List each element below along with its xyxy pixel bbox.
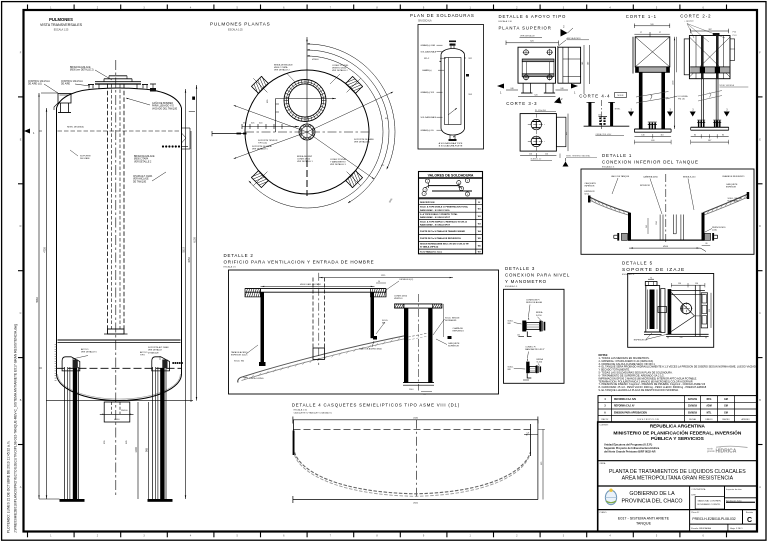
svg-text:DE IZAJE: DE IZAJE xyxy=(80,157,90,160)
svg-text:RADIOGRAF. - S/ UW-52 SPOT: RADIOGRAF. - S/ UW-52 SPOT xyxy=(420,216,451,219)
svg-text:ESPESOR 12: ESPESOR 12 xyxy=(634,340,648,342)
svg-text:DIBUJO: DIBUJO xyxy=(706,419,713,421)
svg-text:1: 1 xyxy=(427,181,428,183)
svg-text:VER DETALLE 6: VER DETALLE 6 xyxy=(81,351,98,354)
svg-text:Ø600 C/ TAPA: Ø600 C/ TAPA xyxy=(274,66,288,69)
svg-text:45°: 45° xyxy=(385,118,388,120)
svg-text:REVISO: REVISO xyxy=(722,419,730,421)
svg-text:APOYO: APOYO xyxy=(81,348,89,351)
svg-text:DN500: DN500 xyxy=(121,410,128,412)
svg-text:150: 150 xyxy=(598,115,601,117)
svg-text:Ø500: Ø500 xyxy=(663,246,669,248)
svg-text:C: C xyxy=(747,517,752,524)
svg-text:VENTEO: VENTEO xyxy=(394,298,403,300)
svg-text:SOPORTE DE BASE: SOPORTE DE BASE xyxy=(354,138,374,141)
svg-text:VER DETALLE 1: VER DETALLE 1 xyxy=(297,160,314,163)
svg-text:2: 2 xyxy=(458,183,459,185)
svg-text:D E S C R I P C I O N: D E S C R I P C I O N xyxy=(637,419,659,421)
svg-text:(x16): (x16) xyxy=(712,230,717,232)
svg-text:LADO DE TANQUE: LADO DE TANQUE xyxy=(611,175,630,178)
svg-text:NIVEL DE AGUA: NIVEL DE AGUA xyxy=(67,126,84,129)
svg-text:CONEXION PARA NIVEL: CONEXION PARA NIVEL xyxy=(505,273,570,278)
svg-text:Segundo Proyecto de Infraestru: Segundo Proyecto de Infraestructura Hídr… xyxy=(604,446,660,450)
svg-text:150: 150 xyxy=(695,283,698,285)
svg-text:UTE: UTE xyxy=(691,494,696,496)
svg-text:Escala: INDICADAS: Escala: INDICADAS xyxy=(691,527,711,530)
svg-text:Inspector de obra: Inspector de obra xyxy=(726,488,742,491)
svg-text:OBRA :: OBRA : xyxy=(600,462,607,465)
svg-text:CONTRATISTA:: CONTRATISTA: xyxy=(691,488,706,491)
svg-text:VER DETALLE 3: VER DETALLE 3 xyxy=(330,163,347,166)
svg-text:PLOTEADO: LUNES 21 DE OCTUBRE: PLOTEADO: LUNES 21 DE OCTUBRE DE 2019 11… xyxy=(7,440,11,533)
svg-text:80: 80 xyxy=(706,243,708,245)
svg-text:VACIADO DEL TANQUE: VACIADO DEL TANQUE xyxy=(152,107,178,110)
svg-text:A SOLDADURA A TOPE: A SOLDADURA A TOPE xyxy=(439,142,463,145)
svg-text:RADIOGRAF. - S/ UW-51 100%: RADIOGRAF. - S/ UW-51 100% xyxy=(420,209,450,212)
svg-text:965: 965 xyxy=(146,447,149,452)
svg-text:FILETE DE Tw S/ TABLA DE TAMAÑ: FILETE DE Tw S/ TABLA DE TAMAÑO MINIMO xyxy=(420,230,466,233)
svg-text:ORIFICIO PARA VENTILACION Y EN: ORIFICIO PARA VENTILACION Y ENTRADA DE H… xyxy=(224,260,375,265)
svg-text:100: 100 xyxy=(517,335,520,337)
svg-text:7.5: 7.5 xyxy=(423,394,426,396)
svg-text:DESCRIPCION: DESCRIPCION xyxy=(420,202,435,204)
svg-text:del Norte Grande Préstamo BIRF: del Norte Grande Préstamo BIRF 8032-AR xyxy=(604,450,656,454)
svg-text:GM: GM xyxy=(724,406,728,408)
svg-text:FILETE DE Tw S/ TABLA DE REFUE: FILETE DE Tw S/ TABLA DE REFUERZOS xyxy=(420,237,461,240)
svg-text:17: 17 xyxy=(659,32,661,34)
svg-text:S. A TOPE DOBLE C/ PENETR. TOT: S. A TOPE DOBLE C/ PENETR. TOTAL xyxy=(420,213,458,216)
svg-text:ANCLAJE M20: ANCLAJE M20 xyxy=(567,37,582,40)
svg-text:150: 150 xyxy=(680,337,683,339)
svg-text:1245: 1245 xyxy=(656,221,658,225)
svg-text:S-150: S-150 xyxy=(537,361,543,363)
svg-text:140: 140 xyxy=(641,134,644,136)
svg-text:7: 7 xyxy=(424,194,425,196)
svg-text:APOYO: APOYO xyxy=(140,351,148,354)
svg-text:VER DETALLE 2: VER DETALLE 2 xyxy=(332,69,349,72)
svg-text:1200: 1200 xyxy=(135,447,138,453)
svg-text:400: 400 xyxy=(651,140,654,142)
svg-text:450: 450 xyxy=(566,132,568,135)
svg-text:PLANTA DE TRATAMIENTOS DE LIQU: PLANTA DE TRATAMIENTOS DE LIQUIDOS CLOAC… xyxy=(609,469,746,475)
svg-text:GM: GM xyxy=(724,412,728,414)
svg-text:NORMA W6: NORMA W6 xyxy=(445,319,457,322)
svg-text:VER DETALLE 2: VER DETALLE 2 xyxy=(134,160,152,163)
svg-text:ESCALA 1:10: ESCALA 1:10 xyxy=(294,409,308,412)
svg-text:TIPO: TIPO xyxy=(140,355,145,357)
svg-text:REV. N°: REV. N° xyxy=(602,419,609,421)
svg-text:TANQUE: TANQUE xyxy=(636,521,652,525)
svg-text:ESCALA 1:5: ESCALA 1:5 xyxy=(505,285,518,288)
svg-text:NIVEL: NIVEL xyxy=(615,109,620,111)
svg-text:TIPO (x4): TIPO (x4) xyxy=(258,143,267,145)
svg-text:6100: 6100 xyxy=(194,237,197,243)
svg-text:INFERIOR: INFERIOR xyxy=(585,186,595,188)
svg-text:SOLDADURA A: SOLDADURA A xyxy=(421,51,437,54)
svg-text:MODIF: MODIF xyxy=(618,95,625,97)
svg-text:VER DETALLE 5: VER DETALLE 5 xyxy=(252,148,269,151)
svg-text:SOLD. A TOPE SIMPLE C/ RESPALD: SOLD. A TOPE SIMPLE C/ RESPALDO S/ UW-12 xyxy=(420,220,468,223)
svg-text:RADIOGRAF. - S/ UW-52 SPOT: RADIOGRAF. - S/ UW-52 SPOT xyxy=(420,224,451,227)
svg-text:4700: 4700 xyxy=(44,247,47,253)
svg-text:PLANTA SUPERIOR: PLANTA SUPERIOR xyxy=(499,26,552,31)
svg-text:SOLD. W6: SOLD. W6 xyxy=(234,361,245,363)
svg-text:RFG: RFG xyxy=(707,399,712,401)
svg-text:TUBO DE ACERO Ø600: TUBO DE ACERO Ø600 xyxy=(359,348,383,351)
svg-text:140: 140 xyxy=(582,62,584,65)
svg-text:DE AIRE: DE AIRE xyxy=(61,83,71,86)
svg-text:45°: 45° xyxy=(381,165,384,167)
svg-text:110: 110 xyxy=(660,134,663,136)
svg-text:S/ TABLA (TIPICO): S/ TABLA (TIPICO) xyxy=(420,246,439,249)
svg-text:VISTA TRANSVERSALES: VISTA TRANSVERSALES xyxy=(40,23,83,27)
svg-text:SOLDADURA B: SOLDADURA B xyxy=(421,116,437,119)
svg-text:ESCALA 1:25: ESCALA 1:25 xyxy=(54,29,69,32)
svg-text:80: 80 xyxy=(722,134,724,136)
svg-text:MTL: MTL xyxy=(707,412,712,414)
svg-text:CHAPA ALT. DIAM.: CHAPA ALT. DIAM. xyxy=(133,175,153,178)
svg-text:PULMONES: PULMONES xyxy=(49,17,73,22)
svg-text:240: 240 xyxy=(560,88,563,90)
svg-text:C: C xyxy=(20,312,22,315)
svg-text:VER DETALLE 2: VER DETALLE 2 xyxy=(274,69,291,72)
svg-text:ESCALA 1:5: ESCALA 1:5 xyxy=(602,165,615,168)
svg-text:Ø600 DIAM. DE PASO: Ø600 DIAM. DE PASO xyxy=(300,283,321,286)
svg-text:NIVEL TERRENO NATURAL: NIVEL TERRENO NATURAL xyxy=(566,155,590,158)
svg-text:BRIDA S-150: BRIDA S-150 xyxy=(683,176,696,179)
svg-text:SOPORTE: SOPORTE xyxy=(80,156,91,158)
svg-text:5960: 5960 xyxy=(36,297,39,303)
svg-text:254.6: 254.6 xyxy=(409,389,414,391)
svg-text:PLAN DE SOLDADURAS: PLAN DE SOLDADURAS xyxy=(410,13,475,18)
svg-text:B SOLDADURA FILETE: B SOLDADURA FILETE xyxy=(439,145,463,148)
svg-text:VALORES DE SOLDADURA: VALORES DE SOLDADURA xyxy=(428,173,474,177)
svg-text:J:\PRE03\H\E2B018\PLANOS\PROYE: J:\PRE03\H\E2B018\PLANOS\PROYECTO EJECUT… xyxy=(14,324,18,533)
svg-text:Ø TANQUE: Ø TANQUE xyxy=(148,351,159,354)
svg-text:DETALLE 4(C): DETALLE 4(C) xyxy=(400,278,414,281)
svg-text:APROBO: APROBO xyxy=(741,418,750,421)
svg-text:5: 5 xyxy=(461,189,462,191)
svg-text:DETALLE 2: DETALLE 2 xyxy=(224,253,254,258)
svg-text:DETALLE 4 CASQUETES SEMIELIPT: DETALLE 4 CASQUETES SEMIELIPTICOS TIPO A… xyxy=(292,403,460,408)
svg-text:350: 350 xyxy=(709,309,711,312)
svg-text:JUNTA O-RING: JUNTA O-RING xyxy=(249,377,264,380)
svg-text:520: 520 xyxy=(534,95,537,97)
svg-text:DE TANQUE: DE TANQUE xyxy=(133,180,147,183)
svg-text:ADM: ADM xyxy=(706,405,711,408)
svg-text:CAÑERIA Ø250: CAÑERIA Ø250 xyxy=(643,176,659,179)
svg-text:VER ANCLAJE: VER ANCLAJE xyxy=(133,178,149,181)
svg-text:PÚBLICA Y SERVICIOS: PÚBLICA Y SERVICIOS xyxy=(651,435,705,442)
svg-text:05/08/19: 05/08/19 xyxy=(688,412,698,414)
svg-text:GOBIERNO DE LA: GOBIERNO DE LA xyxy=(629,491,675,497)
svg-text:VER DETALLE: VER DETALLE xyxy=(520,35,535,38)
svg-text:70: 70 xyxy=(650,277,652,279)
svg-text:DETALLE 5: DETALLE 5 xyxy=(622,261,653,266)
svg-text:BRIDA DE ENLACE: BRIDA DE ENLACE xyxy=(134,155,155,158)
svg-text:GMAW(s): GMAW(s) xyxy=(422,69,432,72)
svg-text:PRE03-H-E2B018-PL08-032: PRE03-H-E2B018-PL08-032 xyxy=(692,517,735,521)
svg-text:NORMA W6: NORMA W6 xyxy=(728,200,740,203)
svg-text:240: 240 xyxy=(510,88,513,90)
svg-text:GMAW(s) 6GR: GMAW(s) 6GR xyxy=(421,44,436,47)
svg-text:PARA LLENADO Y/O: PARA LLENADO Y/O xyxy=(152,105,174,108)
svg-text:BRIDA: BRIDA xyxy=(537,358,544,361)
svg-text:BRIDA DE ENLACE: BRIDA DE ENLACE xyxy=(70,66,91,69)
svg-text:110: 110 xyxy=(545,154,548,156)
svg-text:Ø500: Ø500 xyxy=(114,419,120,421)
svg-text:OBRA CIVIL H°A°: OBRA CIVIL H°A° xyxy=(595,133,611,136)
svg-text:VER DETALLE: VER DETALLE xyxy=(148,349,163,352)
svg-text:PROVINCIA DEL CHACO: PROVINCIA DEL CHACO xyxy=(621,499,682,505)
svg-text:CLIENTE:: CLIENTE: xyxy=(600,424,609,426)
svg-text:Unidad Ejecutora del Programa: Unidad Ejecutora del Programa (U.E.P.) xyxy=(604,442,652,446)
svg-text:150: 150 xyxy=(678,283,681,285)
svg-text:SOLD. A TOPE DOBLE C/ PENETRAC: SOLD. A TOPE DOBLE C/ PENETRACION TOTAL xyxy=(420,206,469,209)
svg-text:GM: GM xyxy=(724,399,728,401)
svg-text:SEGUN NORMA ASME SECC VIII DIV: SEGUN NORMA ASME SECC VIII DIV.1 UW-16 T… xyxy=(420,243,469,246)
svg-text:Hoja: 1 DE 1: Hoja: 1 DE 1 xyxy=(730,528,743,530)
svg-text:Ø600 C/TAPA: Ø600 C/TAPA xyxy=(134,158,149,161)
svg-text:Y MANOMETRO: Y MANOMETRO xyxy=(505,279,547,284)
svg-text:CORTE 2-2: CORTE 2-2 xyxy=(680,14,711,19)
svg-text:50: 50 xyxy=(378,281,380,283)
svg-text:CORTE 4-4: CORTE 4-4 xyxy=(579,94,610,99)
svg-text:DETALLE 1: DETALLE 1 xyxy=(602,153,632,158)
svg-text:CONTROL VALVULA: CONTROL VALVULA xyxy=(28,80,50,83)
svg-text:+ agua/aire: + agua/aire xyxy=(684,20,694,23)
svg-text:6mm: 6mm xyxy=(585,194,590,196)
svg-text:D: D xyxy=(20,225,22,228)
svg-text:SOPORTE DE IZAJE: SOPORTE DE IZAJE xyxy=(622,267,685,273)
svg-text:DETALLE 3: DETALLE 3 xyxy=(505,266,535,271)
svg-text:INTERIOR: INTERIOR xyxy=(640,185,650,187)
svg-text:9- EL TANQUE LLEVARA LA PLACA: 9- EL TANQUE LLEVARA LA PLACA DE IDENTIF… xyxy=(599,388,680,392)
svg-text:2440: 2440 xyxy=(413,418,419,420)
svg-text:ESPESOR: ESPESOR xyxy=(726,187,737,189)
svg-text:240: 240 xyxy=(588,62,590,65)
svg-text:P10: P10 xyxy=(733,32,736,34)
svg-text:SANDOVAL CONTRER.: SANDOVAL CONTRER. xyxy=(698,500,722,503)
svg-text:25/09/19: 25/09/19 xyxy=(688,406,698,408)
svg-text:BRIDA: BRIDA xyxy=(536,311,543,314)
svg-text:3250: 3250 xyxy=(188,257,191,263)
svg-text:Ø600 (ver DETALLE 2): Ø600 (ver DETALLE 2) xyxy=(70,69,94,72)
svg-text:SOPORTE DE IZAJE: SOPORTE DE IZAJE xyxy=(252,145,272,148)
svg-text:BRIDA DE INSP: BRIDA DE INSP xyxy=(297,155,313,158)
svg-text:FECHA: FECHA xyxy=(689,418,696,421)
svg-text:PULMONES PLANTAS: PULMONES PLANTAS xyxy=(210,22,270,27)
svg-text:PLANO:: PLANO: xyxy=(600,511,608,514)
svg-text:02/10/19: 02/10/19 xyxy=(688,399,698,401)
svg-text:Ø AGUJ. 22: Ø AGUJ. 22 xyxy=(531,158,543,161)
svg-text:DE AIRE (x2): DE AIRE (x2) xyxy=(28,83,42,86)
svg-text:D: D xyxy=(759,225,761,228)
svg-text:80: 80 xyxy=(694,134,696,136)
svg-text:HÍDRICA: HÍDRICA xyxy=(716,446,737,454)
svg-text:REFORMA CAJ. N°: REFORMA CAJ. N° xyxy=(614,405,635,408)
svg-text:110: 110 xyxy=(529,154,532,156)
svg-text:CONEXION INFERIOR DEL TANQUE: CONEXION INFERIOR DEL TANQUE xyxy=(602,159,699,164)
svg-text:245: 245 xyxy=(646,225,648,228)
svg-text:PNI 140: PNI 140 xyxy=(678,98,685,100)
svg-text:17: 17 xyxy=(640,32,642,34)
svg-text:REFORMA CAJ. S/N: REFORMA CAJ. S/N xyxy=(614,398,636,401)
svg-text:NIVEL VEREDA: NIVEL VEREDA xyxy=(720,84,735,87)
svg-text:CONTROL VALVULA: CONTROL VALVULA xyxy=(61,80,83,83)
svg-text:Tw S/ TABLA Tw: 6mm: Tw S/ TABLA Tw: 6mm xyxy=(420,250,442,253)
svg-text:N°: N° xyxy=(478,202,480,204)
svg-text:3: 3 xyxy=(467,181,468,183)
svg-text:PL 8: PL 8 xyxy=(733,35,737,37)
svg-text:387: 387 xyxy=(708,140,711,142)
svg-text:CORTE 1-1: CORTE 1-1 xyxy=(626,14,657,19)
svg-text:6: 6 xyxy=(467,194,468,196)
svg-text:ESPESOR 10mm: ESPESOR 10mm xyxy=(231,355,248,357)
svg-text:ESCALA 1:25: ESCALA 1:25 xyxy=(228,29,243,32)
svg-text:DETALLE 6 APOYO TIPO: DETALLE 6 APOYO TIPO xyxy=(499,14,567,19)
svg-text:CORTE 3-3: CORTE 3-3 xyxy=(506,101,537,106)
svg-text:AREA METROPOLITANA GRAN RESIST: AREA METROPOLITANA GRAN RESISTENCIA xyxy=(622,476,734,482)
svg-text:NIVEL DE AGUA: NIVEL DE AGUA xyxy=(526,301,542,304)
svg-text:t=8: t=8 xyxy=(527,432,530,435)
svg-text:grande: grande xyxy=(707,451,715,453)
svg-text:VER DETALLE 6: VER DETALLE 6 xyxy=(354,141,371,144)
svg-text:REPUBLICA ARGENTINA: REPUBLICA ARGENTINA xyxy=(650,423,706,428)
svg-text:Revisión: Revisión xyxy=(746,512,753,514)
svg-text:Plano N°: Plano N° xyxy=(691,512,699,514)
svg-text:CASQUETE S/ TANQUE V (VACIADO): CASQUETE S/ TANQUE V (VACIADO) xyxy=(294,412,332,415)
svg-text:SUPERIOR: SUPERIOR xyxy=(448,346,459,348)
svg-text:BRIDA DE ENLACE: BRIDA DE ENLACE xyxy=(274,64,293,67)
svg-text:W1-2: W1-2 xyxy=(424,58,430,60)
svg-text:C: C xyxy=(759,312,761,315)
svg-text:SIN ESCALA: SIN ESCALA xyxy=(418,20,432,23)
svg-text:EMISION PARA APROBACION: EMISION PARA APROBACION xyxy=(614,411,647,414)
svg-text:SOPORTE ALT. DIAM: SOPORTE ALT. DIAM xyxy=(148,346,169,349)
svg-text:ESCALA 1:5: ESCALA 1:5 xyxy=(224,266,237,269)
svg-text:MANOMETRO Ø1/2": MANOMETRO Ø1/2" xyxy=(525,348,545,351)
svg-text:S-150: S-150 xyxy=(536,315,542,317)
svg-text:GMAW(s) W3: GMAW(s) W3 xyxy=(421,91,435,94)
svg-text:E017 - SISTEMA ANTI ARIETE: E017 - SISTEMA ANTI ARIETE xyxy=(618,517,670,521)
svg-text:Y MANOMETRO: Y MANOMETRO xyxy=(330,161,346,164)
svg-text:CAÑO DE BOMBEO: CAÑO DE BOMBEO xyxy=(152,102,173,105)
svg-text:Ø2440: Ø2440 xyxy=(312,59,319,61)
svg-text:2500: 2500 xyxy=(413,503,419,505)
svg-text:ESCALA 1:10: ESCALA 1:10 xyxy=(499,20,513,23)
svg-text:REFUERZO: REFUERZO xyxy=(453,331,465,333)
svg-text:5310: 5310 xyxy=(183,247,186,253)
svg-text:CHAPA DE REFUERZO: CHAPA DE REFUERZO xyxy=(722,175,745,178)
svg-text:GMAW(s) 6G: GMAW(s) 6G xyxy=(421,129,434,132)
svg-text:ROVERANO CONSTR.: ROVERANO CONSTR. xyxy=(698,503,721,506)
